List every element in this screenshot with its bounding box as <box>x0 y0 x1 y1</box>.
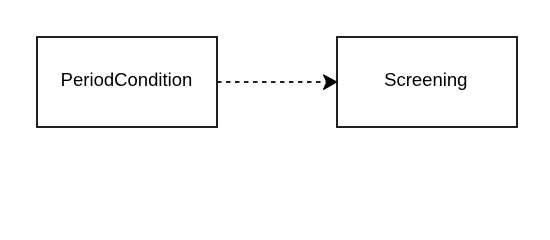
wire dashed arrow <box>217 75 336 89</box>
box Screening <box>337 37 517 127</box>
svg-text:Screening: Screening <box>384 69 467 90</box>
box PeriodCondition <box>37 37 217 127</box>
svg-text:PeriodCondition: PeriodCondition <box>61 69 193 90</box>
